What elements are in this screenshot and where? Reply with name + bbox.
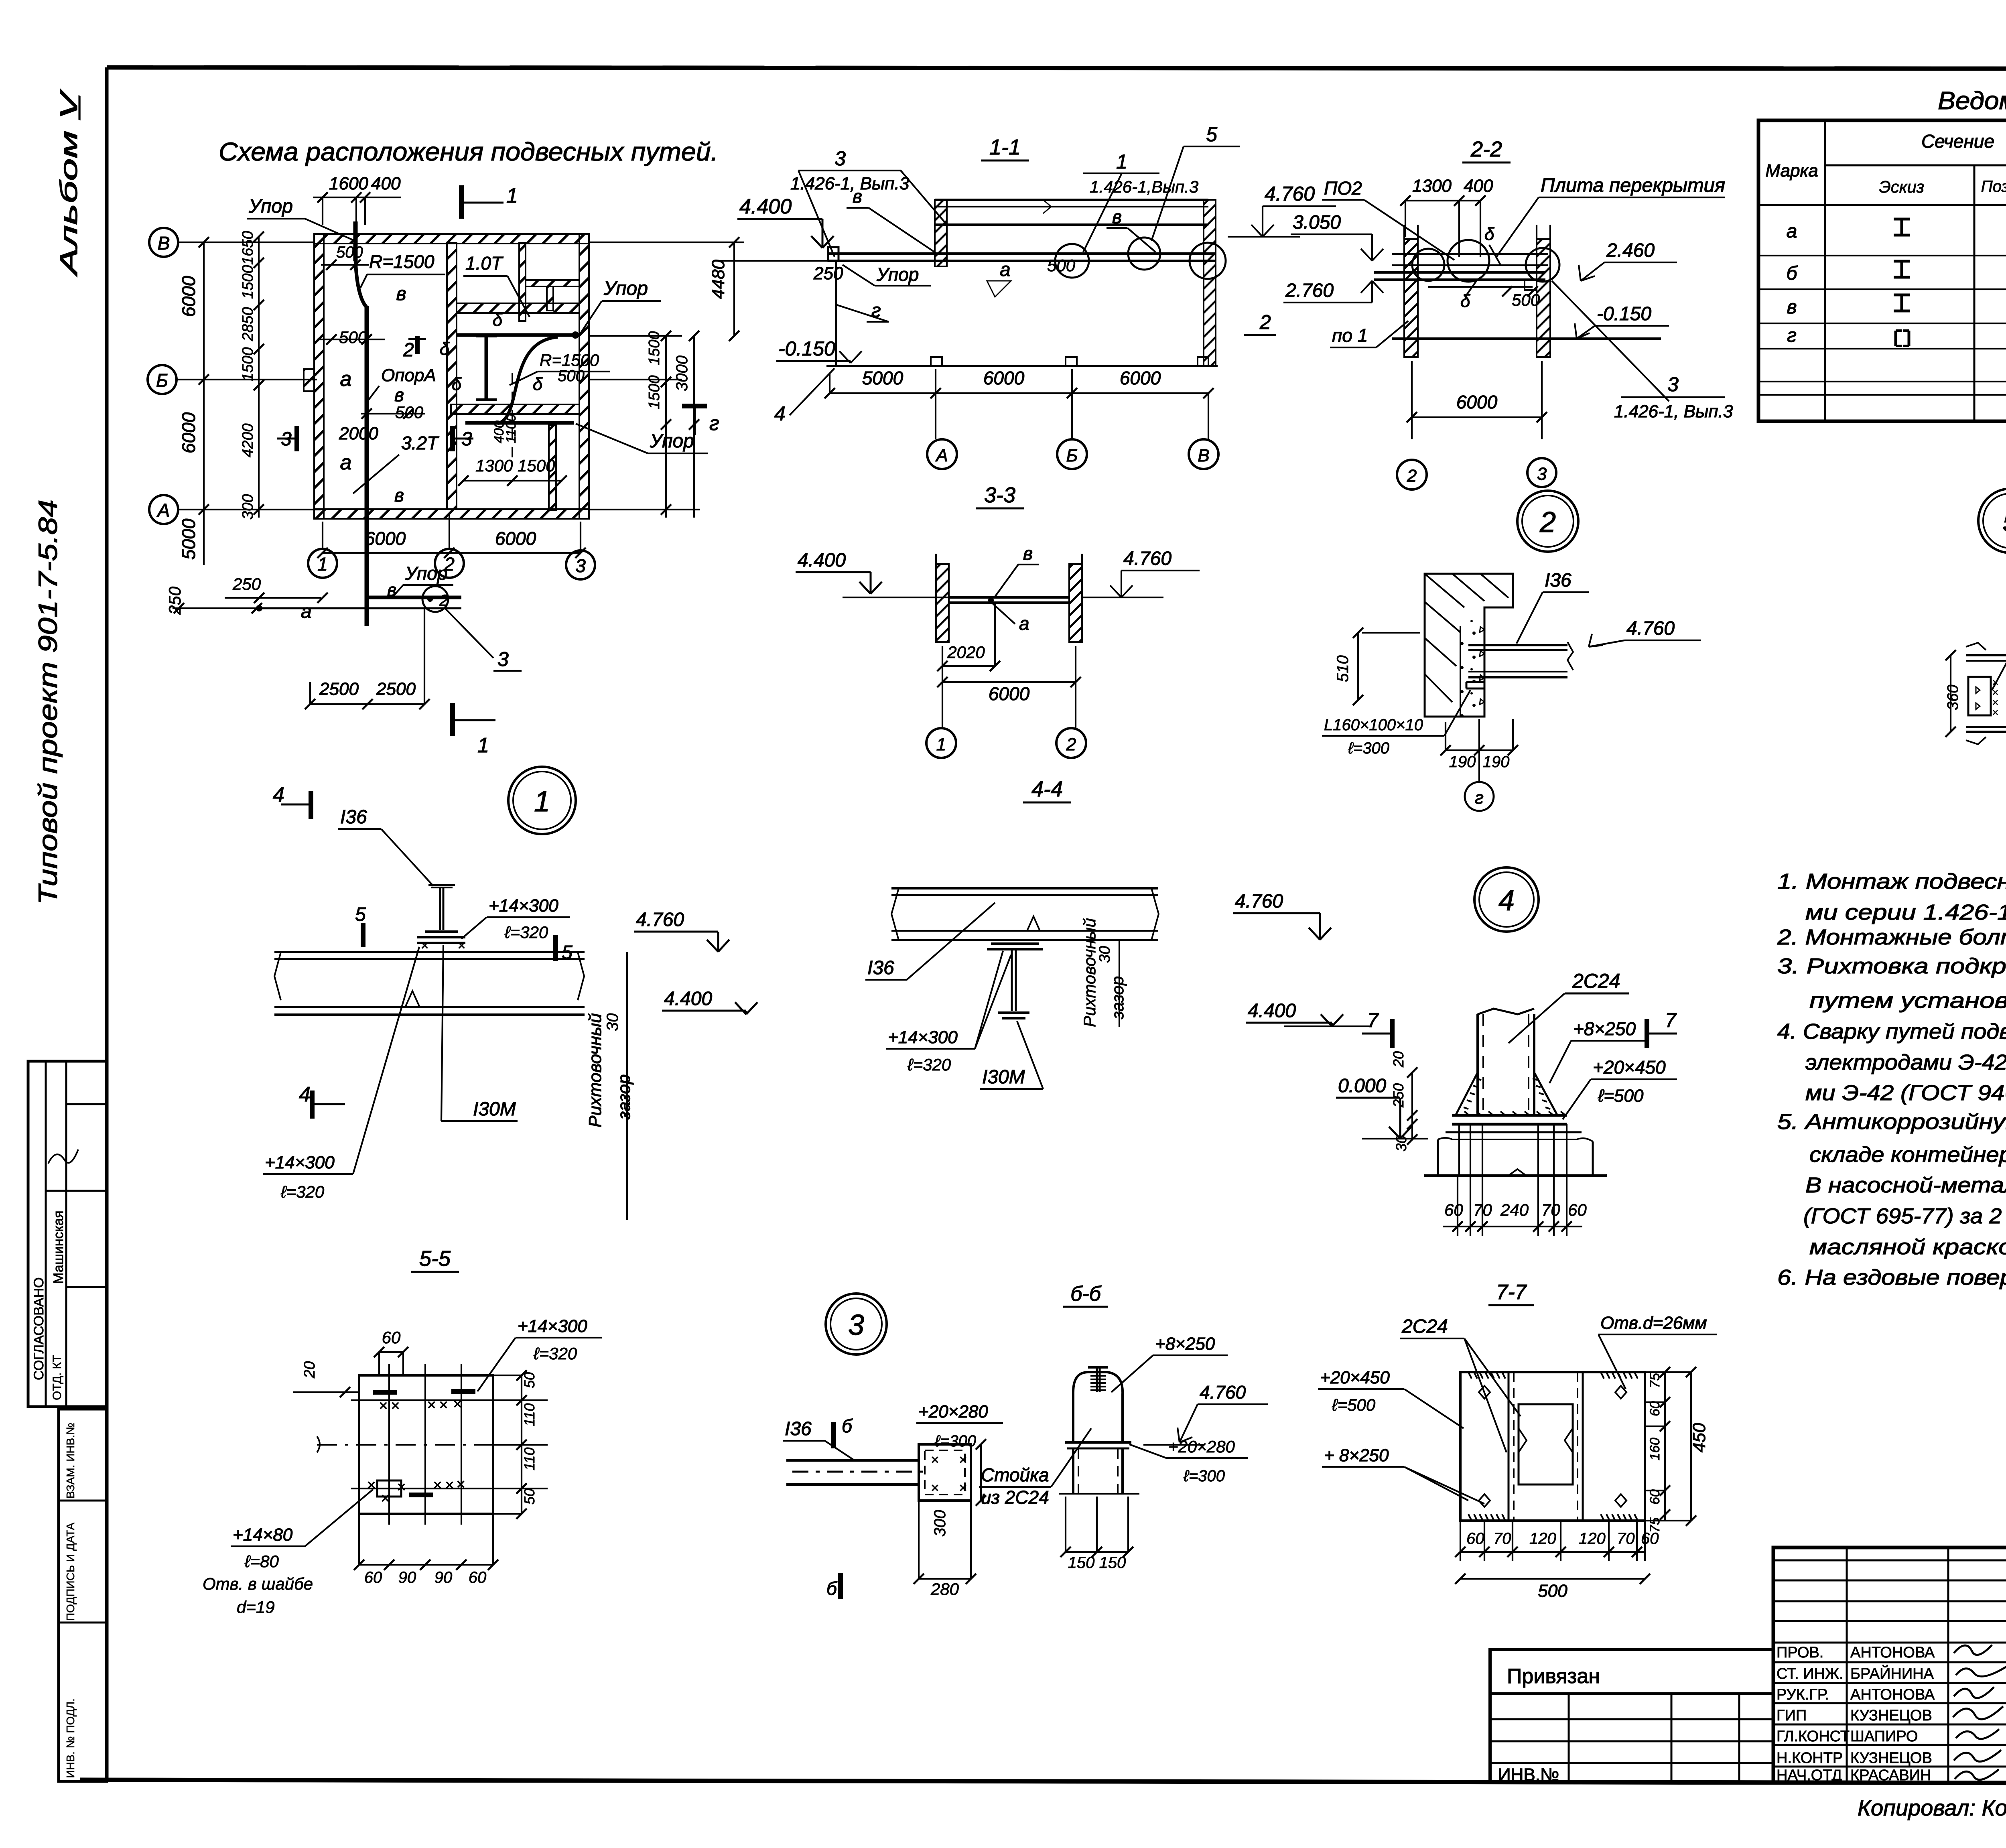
svg-text:4.760: 4.760 <box>1265 183 1315 205</box>
svg-text:ГЛ.КОНСТ: ГЛ.КОНСТ <box>1777 1728 1850 1745</box>
7-7 right dims <box>1664 1372 1666 1521</box>
plan left inner dim chain <box>258 237 260 518</box>
5-5 weld bars <box>373 1390 397 1395</box>
svg-text:d=19: d=19 <box>237 1598 275 1616</box>
svg-text:ℓ=300: ℓ=300 <box>1348 739 1389 757</box>
5-5 right dims <box>521 1375 522 1514</box>
detail 1 slab <box>274 951 585 953</box>
svg-text:δ: δ <box>440 339 450 359</box>
б-б bottom dims <box>1066 1551 1128 1553</box>
svg-text:3: 3 <box>575 555 586 576</box>
svg-text:в: в <box>853 186 862 207</box>
svg-text:ОТД. КТ: ОТД. КТ <box>51 1355 64 1400</box>
grid axis 1 <box>308 549 337 578</box>
plan walls <box>314 234 589 244</box>
svg-text:4. Сварку путей подвесного: 4. Сварку путей подвесного транспорта пр… <box>1777 1019 2006 1044</box>
svg-text:ПРОВ.: ПРОВ. <box>1777 1644 1823 1661</box>
svg-text:60: 60 <box>1647 1489 1663 1505</box>
svg-text:электродами Э-42А, а остальны: электродами Э-42А, а остальных металлоко… <box>1805 1050 2006 1074</box>
привязан block <box>1490 1649 1773 1785</box>
svg-text:из 2С24: из 2С24 <box>981 1487 1049 1508</box>
left margin: Альбом V <box>55 89 82 277</box>
svg-text:+14×300: +14×300 <box>518 1316 587 1336</box>
б-б lower column <box>1072 1448 1074 1494</box>
7-7 weld hatch edges <box>1468 1372 1472 1379</box>
svg-text:в: в <box>1112 206 1122 227</box>
plan dims 2500 2500 <box>310 703 424 705</box>
svg-text:4.760: 4.760 <box>1626 618 1675 639</box>
svg-text:6000: 6000 <box>1456 392 1498 412</box>
svg-text:зазор: зазор <box>614 1074 634 1120</box>
svg-text:1500: 1500 <box>646 375 663 409</box>
svg-text:190: 190 <box>1449 753 1476 771</box>
svg-text:250: 250 <box>813 264 843 283</box>
svg-text:в: в <box>387 580 396 600</box>
svg-text:240: 240 <box>1500 1200 1529 1219</box>
svg-text:зазор: зазор <box>1108 976 1127 1019</box>
1-1 rail beam <box>828 252 1215 255</box>
svg-text:6000: 6000 <box>989 683 1030 704</box>
svg-text:Эскиз: Эскиз <box>1879 177 1925 196</box>
svg-text:КРАСАВИН: КРАСАВИН <box>1850 1767 1931 1784</box>
svg-text:6000: 6000 <box>1120 368 1161 388</box>
svg-text:ШАПИРО: ШАПИРО <box>1850 1728 1918 1745</box>
svg-text:5: 5 <box>562 942 573 963</box>
svg-text:АНТОНОВА: АНТОНОВА <box>1850 1686 1935 1703</box>
plan rail: S-curve R=1500 <box>497 337 558 424</box>
2-2 walls <box>1404 239 1418 357</box>
svg-text:δ: δ <box>533 374 543 394</box>
svg-text:3: 3 <box>834 147 846 170</box>
svg-text:60: 60 <box>382 1328 401 1347</box>
svg-text:СОГЛАСОВАНО: СОГЛАСОВАНО <box>31 1277 47 1380</box>
left margin: Типовой проект 901-7-5.84 <box>33 500 63 905</box>
svg-text:1500: 1500 <box>240 347 256 381</box>
title block <box>1773 1547 2006 1784</box>
svg-text:400: 400 <box>1464 176 1493 196</box>
svg-text:R=1500: R=1500 <box>540 351 599 370</box>
table Ведомость сечений <box>1758 87 2006 421</box>
svg-text:300: 300 <box>931 1510 949 1537</box>
svg-text:+ 8×250: + 8×250 <box>1324 1446 1389 1465</box>
svg-text:500: 500 <box>1538 1581 1567 1601</box>
detail 1 rail I36 <box>428 884 455 886</box>
plan right dim chain <box>665 336 667 518</box>
svg-text:120: 120 <box>1529 1530 1556 1547</box>
plan rail: curve R=1500 room В-Б <box>355 260 367 307</box>
svg-text:2500: 2500 <box>376 679 416 699</box>
svg-text:+14×300: +14×300 <box>888 1028 958 1047</box>
svg-text:Н.КОНТР: Н.КОНТР <box>1777 1750 1843 1767</box>
5-5 top dim 60 <box>379 1351 403 1353</box>
svg-text:90: 90 <box>434 1569 453 1586</box>
1-1 floor line <box>826 365 1218 367</box>
grid axis А <box>149 495 178 524</box>
svg-text:×: × <box>381 1490 390 1507</box>
svg-text:1.0Т: 1.0Т <box>465 253 504 274</box>
detail 1 cut mark 4 top <box>309 791 313 819</box>
svg-text:2. Монтажные болты нормальной: 2. Монтажные болты нормальной точности М… <box>1777 925 2006 949</box>
svg-text:1.426-1,Вып.3: 1.426-1,Вып.3 <box>1090 177 1198 196</box>
svg-text:3: 3 <box>1537 464 1547 484</box>
section 3-3 <box>796 483 1200 758</box>
grid axis В <box>149 228 178 257</box>
svg-text:L160×100×10: L160×100×10 <box>1324 716 1423 734</box>
svg-text:В насосной-металлоконструкции: В насосной-металлоконструкции окрасить м… <box>1805 1173 2006 1197</box>
1-1 right wall <box>1204 200 1216 366</box>
svg-text:1600: 1600 <box>329 174 368 193</box>
svg-text:4.400: 4.400 <box>1248 1000 1296 1021</box>
svg-text:1.426-1, Вып.3: 1.426-1, Вып.3 <box>790 174 910 193</box>
svg-text:Рихтовочный: Рихтовочный <box>585 1013 605 1127</box>
svg-text:6000: 6000 <box>495 528 536 549</box>
svg-text:в: в <box>394 384 404 405</box>
svg-text:60: 60 <box>469 1569 487 1586</box>
1-1 grid bubbles <box>935 393 936 439</box>
svg-text:б: б <box>1787 263 1798 284</box>
svg-text:ОпорА: ОпорА <box>381 366 436 385</box>
svg-text:δ: δ <box>493 310 503 330</box>
svg-text:БРАЙНИНА: БРАЙНИНА <box>1850 1664 1934 1682</box>
svg-text:4480: 4480 <box>709 260 728 299</box>
grid axis Б <box>148 365 177 394</box>
svg-text:а: а <box>340 368 352 391</box>
svg-text:60: 60 <box>1647 1401 1663 1416</box>
plan dashed axis <box>512 373 513 457</box>
svg-text:110: 110 <box>521 1448 538 1470</box>
7-7 inner cut <box>1519 1404 1573 1484</box>
svg-text:1-1: 1-1 <box>989 135 1021 159</box>
svg-text:Схема расположения подвесных п: Схема расположения подвесных путей. <box>219 137 718 166</box>
svg-text:Сечение: Сечение <box>1921 131 1994 152</box>
svg-text:(ГОСТ 695-77) за 2 раза. Нару: (ГОСТ 695-77) за 2 раза. Наружные металл… <box>1803 1204 2006 1228</box>
svg-text:Рихтовочный: Рихтовочный <box>1080 918 1099 1027</box>
svg-text:5: 5 <box>1206 123 1217 146</box>
svg-text:2000: 2000 <box>339 424 378 443</box>
svg-text:2С24: 2С24 <box>1572 970 1620 992</box>
svg-text:×: × <box>931 1480 939 1496</box>
plan rail: horizontal beam upper right <box>457 333 575 337</box>
svg-text:50: 50 <box>521 1489 538 1505</box>
7-7 base plate plan <box>1460 1372 1645 1521</box>
svg-text:6000: 6000 <box>983 368 1025 388</box>
svg-text:НАЧ.ОТД: НАЧ.ОТД <box>1777 1767 1842 1784</box>
svg-text:Машинская: Машинская <box>51 1210 66 1284</box>
svg-text:2020: 2020 <box>947 643 985 662</box>
svg-text:3000: 3000 <box>673 355 691 391</box>
svg-text:3: 3 <box>1667 373 1679 396</box>
svg-text:×: × <box>959 1480 967 1496</box>
svg-text:×: × <box>439 1397 448 1413</box>
svg-text:АНТОНОВА: АНТОНОВА <box>1850 1644 1935 1661</box>
svg-text:б-б: б-б <box>1070 1282 1102 1306</box>
svg-text:510: 510 <box>1334 655 1352 682</box>
svg-text:Б: Б <box>156 370 168 391</box>
section 5-5 <box>203 1247 602 1616</box>
detail 5: rail joint with angle L100x8 <box>1945 489 2006 781</box>
plan lower detail: rail а <box>257 607 461 609</box>
svg-text:70: 70 <box>1617 1530 1635 1547</box>
bottom note Копировал <box>1858 1795 2006 1820</box>
svg-text:70: 70 <box>1473 1200 1492 1219</box>
svg-text:3: 3 <box>497 648 509 670</box>
svg-text:60: 60 <box>1466 1530 1484 1547</box>
svg-text:I36: I36 <box>340 806 367 828</box>
svg-text:ℓ=320: ℓ=320 <box>504 923 548 942</box>
svg-text:ℓ=320: ℓ=320 <box>533 1344 577 1363</box>
svg-text:2: 2 <box>1259 311 1271 333</box>
svg-text:250: 250 <box>1390 1083 1407 1108</box>
svg-text:5000: 5000 <box>178 518 199 560</box>
main title <box>219 137 718 166</box>
svg-text:2: 2 <box>439 592 448 609</box>
svg-text:×: × <box>397 1479 406 1496</box>
svg-text:3. Рихтовка подкрановых путей: 3. Рихтовка подкрановых путей по вертика… <box>1777 954 2006 978</box>
svg-text:ПОДПИСЬ И ДАТА: ПОДПИСЬ И ДАТА <box>64 1523 77 1621</box>
svg-text:60: 60 <box>1641 1530 1659 1547</box>
svg-text:ℓ=80: ℓ=80 <box>244 1552 279 1571</box>
svg-text:Б: Б <box>1066 446 1078 465</box>
svg-text:×: × <box>1992 706 1998 719</box>
svg-text:360: 360 <box>1945 685 1961 710</box>
4-4 slab <box>891 887 1158 889</box>
detail 1 gap dim <box>626 952 628 1220</box>
svg-text:4.400: 4.400 <box>664 988 712 1009</box>
detail 2 angle support <box>1466 681 1484 683</box>
2-2 dim 6000 <box>1412 416 1542 418</box>
svg-text:а: а <box>301 601 312 622</box>
plan rail: horizontal beam lower right <box>465 421 574 425</box>
svg-text:I30М: I30М <box>473 1099 516 1120</box>
svg-text:1.426-1, Вып.3: 1.426-1, Вып.3 <box>1614 402 1733 421</box>
svg-text:4: 4 <box>299 1083 311 1106</box>
plan rail: vertical beam on axis 1+500 <box>353 221 358 261</box>
plan left dim chain <box>203 242 205 565</box>
svg-text:ℓ=300: ℓ=300 <box>1183 1467 1225 1485</box>
svg-text:4: 4 <box>774 402 786 425</box>
svg-text:складе контейнеров производи: складе контейнеров производить по таблиц… <box>1809 1143 2006 1167</box>
svg-text:Упор: Упор <box>650 431 694 452</box>
svg-text:Упор: Упор <box>405 563 447 584</box>
svg-text:Стойка: Стойка <box>981 1464 1049 1485</box>
svg-text:ℓ=320: ℓ=320 <box>280 1182 325 1201</box>
svg-text:5: 5 <box>2002 506 2006 538</box>
svg-text:А: А <box>156 500 170 521</box>
svg-text:1. Монтаж подвесных путей вес: 1. Монтаж подвесных путей вести в соотве… <box>1777 869 2006 894</box>
svg-text:ℓ=320: ℓ=320 <box>907 1055 951 1074</box>
1-1 slab <box>935 199 1208 201</box>
svg-text:δ: δ <box>1484 224 1494 244</box>
svg-text:5: 5 <box>355 904 366 925</box>
б-б plate square <box>919 1444 971 1501</box>
plan section mark 2 right <box>682 404 707 408</box>
svg-text:2.760: 2.760 <box>1285 280 1334 301</box>
section 4-4 <box>865 777 1372 1089</box>
svg-text:1: 1 <box>477 734 489 757</box>
svg-text:ℓ=500: ℓ=500 <box>1598 1086 1644 1106</box>
detail 5 beam plan <box>1966 654 2006 656</box>
plan section mark 1 top <box>459 185 464 219</box>
7-7 bottom dims <box>1460 1551 1645 1553</box>
svg-text:×: × <box>445 1477 454 1494</box>
svg-text:3.050: 3.050 <box>1293 212 1341 233</box>
svg-text:300: 300 <box>240 494 256 520</box>
svg-text:СТ. ИНЖ.: СТ. ИНЖ. <box>1777 1665 1844 1682</box>
svg-text:масляной краской (ГОСТ 8292-: масляной краской (ГОСТ 8292-75) за 2 раз… <box>1809 1235 2006 1259</box>
plan section mark 1 bottom <box>450 703 455 736</box>
svg-text:в: в <box>394 485 404 506</box>
plan rail: I-symbol hanger <box>485 336 488 400</box>
svg-text:в: в <box>396 283 406 305</box>
svg-text:Марка: Марка <box>1765 161 1818 181</box>
svg-text:2: 2 <box>1066 735 1076 754</box>
svg-text:Упор: Упор <box>876 264 919 285</box>
svg-text:ми Э-42 (ГОСТ 9467-75). Катет: ми Э-42 (ГОСТ 9467-75). Катет шва - 8мм,… <box>1805 1081 2006 1105</box>
7-7 bolt holes <box>1479 1386 1490 1399</box>
svg-text:ℓ=500: ℓ=500 <box>1332 1395 1376 1414</box>
svg-text:500: 500 <box>1512 290 1540 309</box>
3-3 rail <box>949 596 1069 599</box>
svg-text:I36: I36 <box>1545 570 1572 591</box>
svg-text:4.400: 4.400 <box>798 550 846 571</box>
svg-text:4: 4 <box>1498 885 1515 917</box>
svg-text:120: 120 <box>1579 1530 1606 1547</box>
svg-text:4-4: 4-4 <box>1031 777 1063 801</box>
detail 1: rail suspension <box>263 767 757 1220</box>
svg-text:280: 280 <box>930 1580 959 1598</box>
4-4 hanger plate and I30M <box>991 942 1039 945</box>
б-б base plate <box>1065 1441 1131 1444</box>
б-б plan: beam into plate <box>786 1459 919 1462</box>
plan top dim 1600 400 <box>313 197 401 198</box>
svg-text:Плита перекрытия: Плита перекрытия <box>1541 175 1725 196</box>
detail 2 wall with hatch <box>1425 574 1513 717</box>
svg-text:4.400: 4.400 <box>739 195 792 218</box>
svg-text:2: 2 <box>1407 466 1417 486</box>
svg-text:ИНВ.№: ИНВ.№ <box>1498 1765 1559 1785</box>
svg-text:ми серии 1.426-1, вып.3.: ми серии 1.426-1, вып.3. <box>1805 900 2006 924</box>
svg-text:2500: 2500 <box>319 679 359 699</box>
svg-text:70: 70 <box>1541 1200 1560 1219</box>
svg-text:Копировал: Корецкая: Копировал: Корецкая <box>1858 1795 2006 1820</box>
svg-text:в: в <box>1023 543 1033 564</box>
svg-text:×: × <box>959 1452 967 1468</box>
detail б-б stand <box>783 1282 1268 1599</box>
section 2-2 <box>1228 137 1733 489</box>
svg-text:+8×250: +8×250 <box>1155 1334 1215 1354</box>
svg-text:4.760: 4.760 <box>1123 548 1172 569</box>
svg-text:×: × <box>931 1452 939 1468</box>
svg-text:7: 7 <box>1367 1009 1379 1032</box>
notes text block <box>1777 869 2006 1290</box>
svg-text:7: 7 <box>1665 1009 1677 1032</box>
svg-text:1: 1 <box>534 786 550 818</box>
svg-text:30: 30 <box>1096 946 1113 963</box>
svg-text:250: 250 <box>232 575 261 593</box>
svg-text:6000: 6000 <box>178 412 199 453</box>
svg-text:1: 1 <box>936 735 946 754</box>
5-5 centerlines <box>317 1444 534 1446</box>
svg-text:1300: 1300 <box>1412 176 1452 196</box>
table sketches I-beams <box>1894 218 1910 221</box>
grid axis 3 <box>566 550 595 579</box>
svg-text:×: × <box>433 1477 442 1494</box>
svg-text:1: 1 <box>1116 150 1127 173</box>
svg-text:Поз.: Поз. <box>1981 178 2006 195</box>
svg-text:б: б <box>842 1415 853 1436</box>
section 1-1 <box>718 123 1240 469</box>
detail 5 splice plate <box>1968 677 1991 715</box>
svg-text:2-2: 2-2 <box>1470 137 1502 161</box>
svg-text:150: 150 <box>1099 1554 1126 1572</box>
svg-text:В: В <box>1198 446 1209 465</box>
detail 2: beam on wall corbel <box>1322 491 1701 811</box>
svg-text:путем установки прокладок в: путем установки прокладок в зазор δ= 30 … <box>1809 989 2006 1013</box>
detail 4 gussets <box>1456 1072 1478 1115</box>
svg-text:+8×250: +8×250 <box>1573 1018 1636 1039</box>
5-5 bottom dims <box>359 1564 493 1566</box>
svg-text:5000: 5000 <box>862 368 904 388</box>
grid axis 2 <box>435 549 464 578</box>
svg-text:в: в <box>1787 296 1797 318</box>
svg-text:а: а <box>1019 613 1029 634</box>
svg-text:190: 190 <box>1483 753 1510 771</box>
svg-text:4.760: 4.760 <box>1235 891 1283 912</box>
detail 4 foundation <box>1446 1131 1582 1133</box>
svg-text:1300: 1300 <box>475 456 513 475</box>
detail 3 bubble <box>826 1294 887 1355</box>
svg-text:ВЗАМ. ИНВ.№: ВЗАМ. ИНВ.№ <box>64 1423 77 1499</box>
svg-text:4.760: 4.760 <box>1200 1382 1246 1403</box>
svg-text:60: 60 <box>1568 1200 1587 1219</box>
svg-text:Отв.d=26мм: Отв.d=26мм <box>1600 1313 1707 1333</box>
2-2 bottom callout <box>1552 281 1669 401</box>
2-2 callout circles <box>1448 240 1489 282</box>
svg-text:×: × <box>453 1396 462 1413</box>
svg-text:I36: I36 <box>867 957 894 979</box>
svg-text:3: 3 <box>848 1309 864 1341</box>
svg-text:110: 110 <box>521 1403 538 1426</box>
svg-text:4.760: 4.760 <box>636 909 684 930</box>
section 7-7 <box>1318 1281 1717 1601</box>
svg-text:500: 500 <box>336 244 363 261</box>
svg-text:Отв. в шайбе: Отв. в шайбе <box>203 1574 313 1593</box>
svg-text:В: В <box>158 233 170 254</box>
svg-text:КУЗНЕЦОВ: КУЗНЕЦОВ <box>1850 1750 1932 1767</box>
svg-text:150: 150 <box>1068 1554 1095 1572</box>
5-5 plate <box>359 1375 493 1514</box>
svg-text:5-5: 5-5 <box>419 1247 451 1271</box>
svg-text:90: 90 <box>398 1569 416 1586</box>
svg-text:1500: 1500 <box>240 265 256 299</box>
б-б stand I-beam top <box>1088 1366 1108 1369</box>
svg-text:г: г <box>1787 325 1797 346</box>
plan bottom dims 6000 6000 <box>323 552 581 554</box>
svg-text:60: 60 <box>364 1569 382 1586</box>
svg-text:а: а <box>340 451 352 474</box>
svg-text:δ: δ <box>1460 291 1470 311</box>
svg-text:6000: 6000 <box>178 276 199 317</box>
2-2 floor <box>1392 337 1661 340</box>
7-7 channels dashed <box>1508 1372 1510 1521</box>
svg-text:50: 50 <box>521 1372 538 1388</box>
svg-text:70: 70 <box>1493 1530 1511 1547</box>
svg-text:60: 60 <box>1444 1200 1463 1219</box>
svg-text:-0.150: -0.150 <box>1597 303 1651 325</box>
svg-text:Привязан: Привязан <box>1507 1665 1600 1688</box>
svg-text:1: 1 <box>506 184 518 207</box>
svg-text:+14×300: +14×300 <box>489 896 558 916</box>
